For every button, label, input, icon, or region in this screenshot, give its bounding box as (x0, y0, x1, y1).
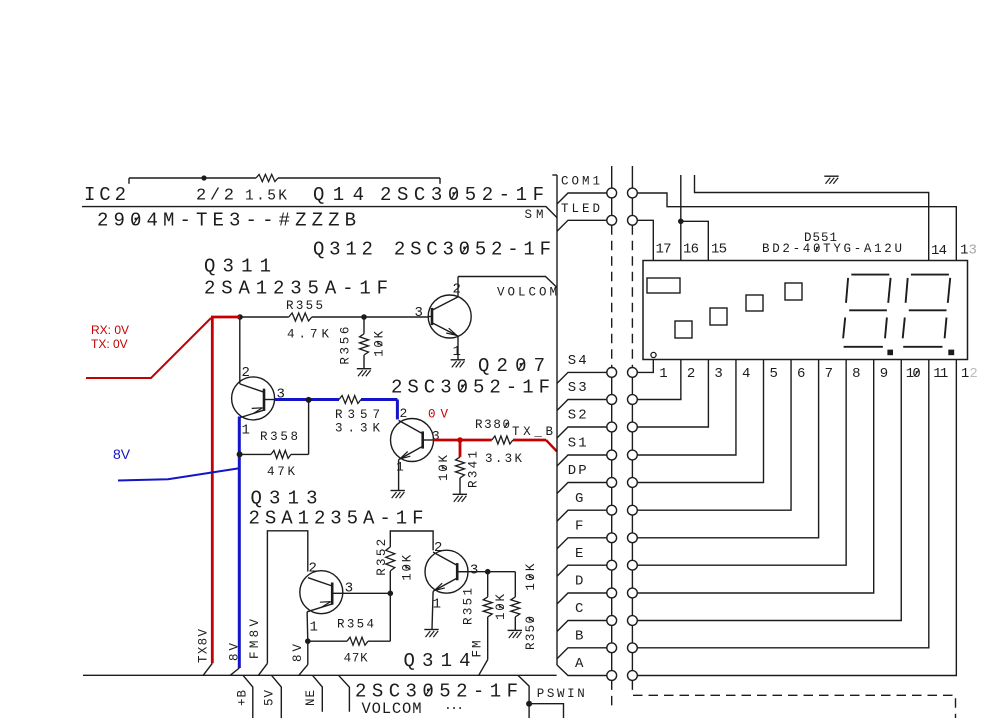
display indicator rect 3 (710, 308, 727, 325)
svg-text:5V: 5V (263, 690, 277, 706)
svg-text:R356: R356 (339, 327, 353, 365)
slashed zeros overlay (133, 191, 919, 696)
svg-text:R351: R351 (462, 588, 476, 625)
svg-text:1: 1 (433, 597, 441, 613)
wire: A to display pin 12 (637, 360, 956, 676)
wire: R351 top stub (487, 572, 489, 597)
connector pin DP right (628, 478, 638, 488)
connector pin C left (607, 616, 617, 626)
wire: Q314 emitter down (432, 591, 433, 629)
node: junction 8V/R354 (305, 638, 311, 644)
svg-text:IC2: IC2 (84, 184, 126, 206)
wire: G to display pin 6 (637, 360, 791, 511)
svg-text:R341: R341 (467, 451, 481, 488)
svg-text:3: 3 (714, 366, 722, 382)
svg-text:S2: S2 (568, 408, 587, 424)
svg-text:COM1: COM1 (561, 175, 600, 189)
ground Q314 (424, 629, 438, 631)
wire: D to display pin 9 (637, 360, 873, 594)
wire: E left tab (557, 565, 607, 576)
connector pin S4 left (607, 368, 617, 378)
resistor R358 zigzag (271, 450, 291, 458)
wire: Q312 emitter down (457, 336, 459, 360)
wire: red horizontal to junction (211, 316, 240, 319)
svg-text:R354: R354 (337, 618, 374, 632)
wire: COM1 to display pin 13 (637, 193, 956, 261)
wire: Q311 collector(2) riser (239, 317, 241, 384)
connector pin TLED right (628, 215, 638, 225)
wire: DP left tab (557, 483, 607, 494)
wire: TX8V tab diagonal (203, 663, 212, 675)
svg-text:8V: 8V (291, 644, 305, 662)
connector pin B left (607, 643, 617, 653)
wire: base net R355 segments (240, 316, 289, 318)
wire: Q313 emitter down (306, 612, 309, 641)
wire: TLED left tab (557, 220, 607, 231)
transistor Q312 (428, 295, 471, 338)
wire: Q314 base net (458, 571, 516, 573)
connector pin D right (628, 588, 638, 598)
wire: blue net R357-Q207 (361, 398, 397, 401)
svg-text:1: 1 (960, 243, 968, 259)
svg-text:10: 10 (906, 366, 921, 382)
svg-text:2: 2 (400, 406, 408, 421)
resistor R354 zigzag (347, 637, 368, 645)
svg-text:D: D (575, 574, 583, 590)
svg-text:VOLCOM: VOLCOM (497, 286, 557, 300)
svg-text:3: 3 (969, 243, 977, 259)
connector pin S2 left (607, 422, 617, 432)
connector pin TLED left (607, 215, 617, 225)
svg-text:R358: R358 (260, 430, 298, 444)
wire: R350 top stub (514, 572, 516, 597)
wire: red stub to R341 (459, 440, 462, 457)
wire: F to display pin 7 (637, 360, 818, 538)
svg-text:C: C (575, 601, 583, 617)
wire: R358 right arm and riser (291, 453, 309, 455)
svg-text:...: ... (444, 698, 464, 713)
node: junction R351 (485, 569, 491, 575)
connector pin S1 right (628, 450, 638, 460)
svg-text:5: 5 (770, 366, 778, 382)
resistor 1.5K zigzag (256, 174, 278, 181)
svg-text:G: G (575, 491, 583, 507)
svg-text:3: 3 (470, 563, 478, 579)
svg-text:Q314: Q314 (404, 650, 471, 672)
svg-text:8: 8 (852, 366, 860, 382)
svg-text:2: 2 (969, 366, 977, 382)
svg-text:2: 2 (434, 540, 442, 556)
wire: C left tab (557, 621, 607, 632)
svg-text:1: 1 (453, 344, 461, 360)
connector pin S4 right (628, 368, 638, 378)
svg-text:7: 7 (825, 366, 833, 382)
wire: FM8V tab diagonal (258, 663, 267, 675)
wire: R350 bottom (514, 617, 516, 631)
svg-text:2: 2 (309, 561, 317, 577)
wire: connector column left (dashed) (611, 166, 613, 188)
connector pin F left (607, 533, 617, 543)
svg-text:FM8V: FM8V (248, 619, 262, 659)
ground Q312 (451, 359, 465, 361)
connector pin B right (628, 643, 638, 653)
resistor R350 zigzag (511, 597, 520, 617)
svg-text:Q313: Q313 (251, 488, 318, 510)
wire: bottom bus (83, 674, 557, 676)
node: junction blue/R358 (306, 397, 312, 403)
wire: red feed diagonal (86, 318, 211, 378)
node: junction pins 16/15 (678, 219, 684, 225)
svg-text:F: F (575, 519, 583, 535)
svg-text:R357: R357 (335, 408, 380, 422)
wire: PSWIN branch right (529, 704, 563, 718)
svg-text:4.7K: 4.7K (287, 328, 329, 342)
svg-text:TX: 0V: TX: 0V (91, 337, 128, 351)
wire: Q312 collector up (457, 277, 459, 297)
wire: E to display pin 8 (637, 360, 846, 566)
wire: blue Q311 emitter(1) drop (238, 417, 241, 669)
wire: R352 bottom stub (389, 571, 391, 593)
svg-text:S1: S1 (568, 436, 587, 452)
wire: red TX8V vertical (211, 317, 214, 663)
wire: FM8V riser (267, 531, 307, 664)
svg-text:PSWIN: PSWIN (537, 687, 585, 701)
display 7-seg digit 1 (851, 274, 889, 276)
display 7-seg digit 2 (911, 274, 949, 276)
wire: S4 to display pin 1 (637, 360, 653, 373)
svg-text:2: 2 (687, 366, 695, 382)
node: junction on bracket (201, 175, 206, 180)
svg-text:+B: +B (235, 690, 249, 706)
wire: DP to display pin 5 (637, 360, 763, 483)
resistor R380 zigzag (492, 436, 513, 444)
wire: blue 8V feed (118, 468, 239, 480)
svg-text:16: 16 (683, 242, 699, 258)
svg-text:6: 6 (797, 366, 805, 382)
wire: R356 bottom (363, 355, 365, 369)
wire: VOLCOM tab (339, 675, 350, 711)
wire: red base out (434, 439, 492, 442)
svg-text:R350: R350 (524, 616, 538, 650)
wire: SM net line (82, 207, 557, 218)
resistor R355 zigzag (289, 313, 312, 321)
svg-text:9: 9 (880, 366, 888, 382)
svg-text:47K: 47K (267, 465, 295, 479)
svg-text:VOLCOM: VOLCOM (362, 700, 422, 718)
wire: A left tab (557, 665, 607, 676)
display indicator rect 1 (647, 278, 680, 293)
connector pin A left (607, 671, 617, 681)
svg-text:1: 1 (242, 423, 250, 439)
svg-text:NE: NE (304, 690, 318, 706)
wire: S2 to display pin 3 (637, 360, 708, 428)
svg-text:2SA1235A-1F: 2SA1235A-1F (249, 508, 424, 530)
wire: Q313 base to junction (343, 592, 391, 594)
svg-text:8V: 8V (113, 446, 131, 462)
svg-text:TX8V: TX8V (197, 629, 211, 663)
connector pin G right (628, 505, 638, 515)
display decimal point 1 (887, 350, 893, 356)
ground R350 (508, 629, 522, 631)
wire: G left tab (557, 510, 607, 521)
wire: red R380 to divider (513, 439, 546, 442)
wire: R354 right arm riser (368, 640, 390, 642)
wire: R356 top (363, 317, 365, 334)
wire: blue base net Q311-R357 (275, 398, 339, 401)
svg-text:1: 1 (961, 366, 969, 382)
svg-text:RX: 0V: RX: 0V (91, 323, 129, 337)
svg-text:3.3K: 3.3K (335, 422, 380, 436)
wire: R354 left arm (308, 640, 347, 642)
node: junction red/base (237, 314, 243, 320)
connector pin S2 right (628, 422, 638, 432)
wire: 8V tab drop (307, 641, 309, 664)
svg-text:11: 11 (933, 366, 948, 382)
svg-text:3: 3 (345, 581, 353, 597)
svg-text:S4: S4 (568, 353, 587, 369)
resistor R352 zigzag (386, 547, 395, 571)
wire: S1 left tab (557, 455, 607, 466)
connector pin S3 right (628, 395, 638, 405)
transistor Q313 (300, 571, 343, 614)
wire: TLED to display pin 17 (637, 220, 653, 260)
wire: connector column right (dashed) (631, 166, 633, 188)
node: junction R358 on blue (237, 451, 243, 457)
connector pin F right (628, 533, 638, 543)
svg-text:TX_B: TX_B (512, 425, 553, 439)
svg-text:2/2: 2/2 (196, 187, 234, 206)
svg-text:3: 3 (415, 305, 423, 321)
display indicator rect 4 (746, 295, 763, 311)
node: junction Q313 base (388, 591, 394, 597)
svg-text:2SC3052-1F: 2SC3052-1F (391, 377, 550, 399)
svg-text:SM: SM (525, 208, 544, 222)
wire: top bracket bus 2/2 (129, 177, 256, 179)
ground Q207 (391, 490, 405, 492)
svg-text:S3: S3 (568, 380, 587, 396)
display decimal point 2 (948, 350, 954, 356)
display indicator rect 5 (785, 283, 802, 300)
wire: F left tab (557, 538, 607, 549)
wire: B left tab (557, 648, 607, 659)
svg-text:1.5K: 1.5K (245, 189, 287, 205)
display indicator rect 2 (675, 321, 692, 338)
resistor R356 zigzag (360, 334, 369, 355)
wire: D left tab (557, 593, 607, 604)
wire: VOLCOM net from Q312 collector (458, 277, 557, 288)
wire: R358 left arm (240, 453, 271, 455)
svg-text:4: 4 (742, 366, 750, 382)
wire: S2 left tab (557, 427, 607, 438)
connector pin S3 left (607, 395, 617, 405)
connector pin C right (628, 616, 638, 626)
node: junction R355/R356 (361, 314, 367, 320)
wire: R352 top to Q314 collector (390, 531, 433, 550)
svg-text:B: B (575, 629, 583, 645)
svg-text:47K: 47K (344, 652, 368, 666)
svg-text:DP: DP (568, 463, 587, 479)
wire: 8V tab diagonal (230, 668, 239, 675)
svg-text:A: A (575, 656, 584, 672)
wire: PSWIN tab (518, 675, 529, 718)
transistor Q311 (232, 377, 275, 420)
wire: NE tab (313, 675, 323, 711)
connector pin G left (607, 505, 617, 515)
svg-text:2SC3052-1F: 2SC3052-1F (380, 184, 544, 206)
svg-text:Q311: Q311 (204, 256, 271, 278)
ground (top right) (824, 175, 838, 177)
svg-text:TLED: TLED (561, 202, 600, 216)
svg-text:15: 15 (711, 242, 727, 258)
wire: R351 bottom / FM tab (487, 617, 489, 660)
ground R356 (357, 368, 371, 370)
display orientation circle (651, 352, 656, 357)
svg-text:Q312 2SC3052-1F: Q312 2SC3052-1F (313, 239, 551, 261)
svg-text:E: E (575, 546, 583, 562)
svg-text:3.3K: 3.3K (485, 452, 522, 466)
wire: +B tab (243, 675, 253, 718)
transistor Q207 (391, 419, 434, 462)
svg-text:R355: R355 (286, 299, 323, 313)
wire: B to display pin 11 (637, 360, 929, 648)
svg-text:2SA1235A-1F: 2SA1235A-1F (204, 278, 388, 300)
connector pin COM1 right (628, 188, 638, 198)
resistor R357 zigzag (339, 396, 361, 404)
wire: divider vertical (556, 175, 558, 665)
ground R341 (453, 493, 467, 495)
connector pin A right (628, 671, 638, 681)
wire: net to display pin 16 (680, 175, 682, 261)
wire: 5V tab (272, 675, 282, 718)
wire: Q207 emitter down (398, 460, 400, 491)
svg-text:0 V: 0 V (428, 408, 448, 422)
wire: COM1 left tab (557, 193, 607, 204)
wire: net to display pin 14 (695, 175, 929, 261)
svg-text:R380: R380 (475, 418, 510, 432)
wire: R341 bottom (459, 478, 461, 494)
svg-text:Q207: Q207 (478, 355, 545, 377)
transistor Q314 (425, 550, 468, 593)
svg-text:1: 1 (396, 460, 404, 475)
resistor R341 zigzag (456, 457, 465, 478)
wire: branch to display pin 15 (681, 221, 709, 260)
svg-text:Q14: Q14 (313, 184, 364, 206)
connector pin D left (607, 588, 617, 598)
svg-text:1: 1 (310, 620, 318, 636)
connector pin E right (628, 560, 638, 570)
connector pin COM1 left (607, 188, 617, 198)
wire: S4 left tab (557, 372, 607, 383)
display D551 box (643, 261, 968, 360)
wire: S3 left tab (557, 400, 607, 411)
svg-text:14: 14 (931, 243, 947, 259)
connector pin S1 left (607, 450, 617, 460)
resistor R351 zigzag (483, 597, 492, 617)
svg-text:FM: FM (470, 641, 484, 658)
connector pin E left (607, 560, 617, 570)
svg-text:1: 1 (659, 366, 667, 382)
wire: S3 to display pin 2 (637, 360, 681, 400)
connector pin DP left (607, 478, 617, 488)
svg-text:17: 17 (656, 242, 672, 258)
node: junction PSWIN (526, 701, 532, 707)
node: red junction R341 (457, 437, 463, 443)
wire: C to display pin 10 (637, 360, 901, 621)
wire: S1 to display pin 4 (637, 360, 736, 456)
